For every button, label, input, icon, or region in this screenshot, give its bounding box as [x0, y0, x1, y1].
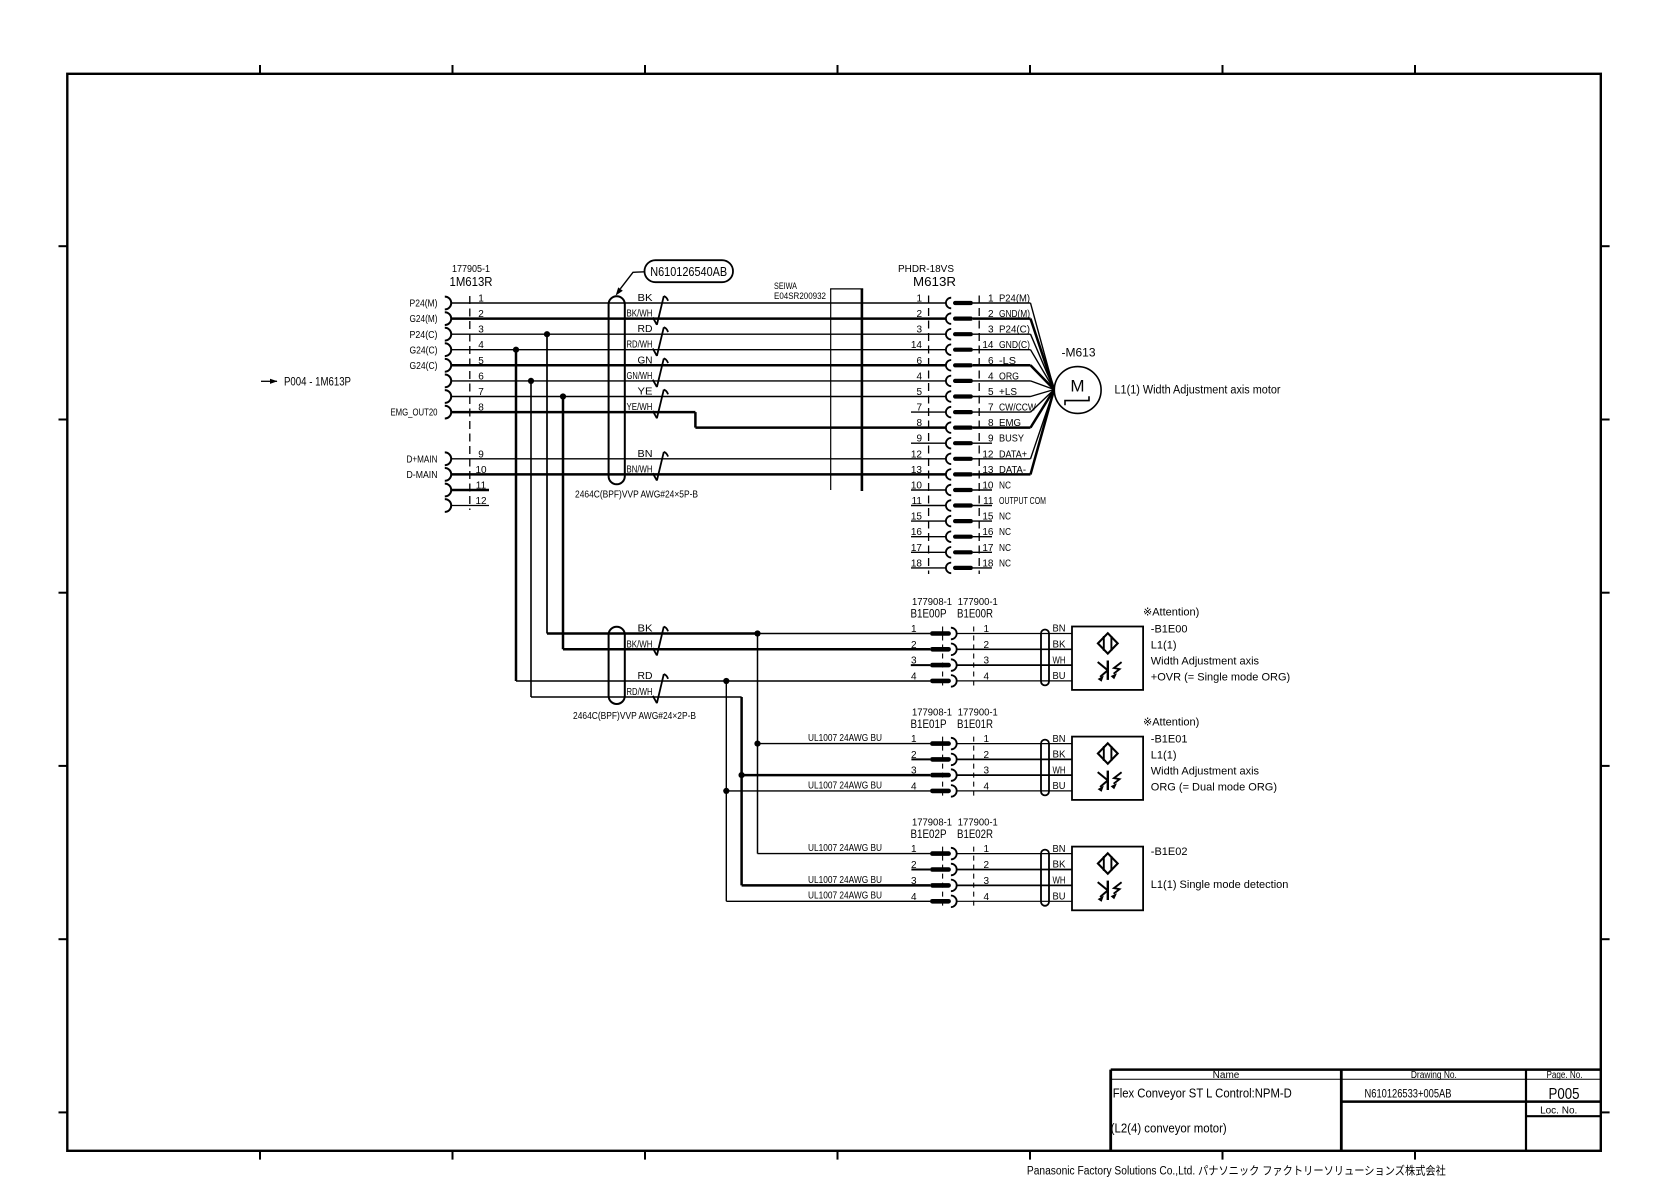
- stub left of M613R row 8: [911, 411, 946, 413]
- svg-text:UL1007 24AWG BU: UL1007 24AWG BU: [808, 843, 882, 854]
- connector B1E00P / B1E00R: [911, 597, 999, 688]
- svg-text:BK: BK: [1053, 640, 1066, 651]
- svg-text:EMG_OUT20: EMG_OUT20: [391, 407, 438, 419]
- svg-text:5: 5: [916, 387, 922, 398]
- wire B1E00R pin 1 to sensor: [957, 633, 1072, 635]
- stub B1E02P pin 2: [911, 869, 930, 871]
- svg-text:WH: WH: [1053, 655, 1066, 666]
- svg-text:BK/WH: BK/WH: [627, 639, 653, 650]
- connector M613R (PHDR-18VS): [898, 264, 1046, 574]
- stub B1E00P pin 3: [911, 664, 930, 666]
- svg-text:G24(C): G24(C): [410, 344, 438, 356]
- twisted pair mark rows 1-2: [664, 296, 668, 301]
- wire M613R row 12 to motor: [973, 390, 1054, 475]
- svg-text:14: 14: [911, 340, 923, 351]
- svg-text:D+MAIN: D+MAIN: [407, 453, 438, 465]
- svg-text:BU: BU: [1053, 671, 1066, 682]
- wire B1E01R pin 3 to sensor: [957, 774, 1072, 776]
- stub 1M613R pin 12: [451, 505, 489, 507]
- node P004 - 1M613P reference: [261, 376, 351, 388]
- svg-text:13: 13: [911, 465, 923, 476]
- wire M613R row 11 to motor: [973, 390, 1054, 459]
- branch wire from pin3 down to BK: [546, 334, 548, 633]
- svg-text:Drawing No.: Drawing No.: [1411, 1070, 1457, 1081]
- wire BK/WH (sensor cable): [563, 648, 930, 651]
- svg-text:N610126533+005AB: N610126533+005AB: [1365, 1086, 1452, 1100]
- svg-text:NC: NC: [999, 512, 1011, 523]
- svg-text:1M613R: 1M613R: [450, 274, 493, 289]
- wire B1E00R pin 2 to sensor: [957, 648, 1072, 650]
- wire M613R row 9 to motor: [973, 390, 1054, 428]
- svg-text:BK: BK: [638, 293, 653, 304]
- wire to B1E01P pin 4: [726, 790, 930, 792]
- branch wire from pin7 down to BK/WH: [562, 397, 565, 650]
- svg-text:Page. No.: Page. No.: [1547, 1070, 1583, 1081]
- twisted pair mark rows 7-8: [664, 390, 668, 395]
- sensor wire colour labels B1E00: [1053, 624, 1066, 682]
- svg-text:BK: BK: [1053, 750, 1066, 761]
- svg-text:YE/WH: YE/WH: [627, 402, 653, 413]
- svg-text:P24(M): P24(M): [410, 298, 438, 310]
- photoelectric sensor B1E00: [1072, 627, 1143, 690]
- svg-text:N610126540AB: N610126540AB: [650, 264, 727, 279]
- svg-text:BN: BN: [638, 449, 653, 460]
- wire to B1E02P pin 3: [742, 884, 930, 887]
- svg-text:BU: BU: [1053, 892, 1066, 903]
- stub left of M613R row 17: [911, 551, 946, 553]
- svg-text:Width Adjustment axis: Width Adjustment axis: [1151, 655, 1260, 667]
- svg-text:1: 1: [911, 624, 917, 635]
- svg-text:GN: GN: [638, 355, 653, 366]
- svg-text:G24(C): G24(C): [410, 360, 438, 372]
- svg-text:L1(1) Width Adjustment axis mo: L1(1) Width Adjustment axis motor: [1115, 385, 1281, 397]
- stub M613R row 17: [973, 551, 992, 553]
- wire M613R row 3 to motor: [973, 334, 1054, 389]
- svg-text:YE: YE: [638, 387, 653, 398]
- wire RD/WH (sensor cable): [531, 696, 742, 698]
- svg-text:OUTPUT COM: OUTPUT COM: [999, 496, 1046, 507]
- connector 1M613R (177905-1): [391, 264, 493, 512]
- junction B1E01 pin1: [754, 741, 760, 747]
- wire M613R row 1 to motor: [973, 303, 1054, 390]
- junction RD branch: [723, 678, 729, 684]
- wire B1E01R pin 1 to sensor: [957, 743, 1072, 745]
- svg-text:2: 2: [911, 640, 917, 651]
- svg-text:L1(1) Single mode detection: L1(1) Single mode detection: [1151, 879, 1289, 891]
- svg-text:2464C(BPF)VVP AWG#24×5P-B: 2464C(BPF)VVP AWG#24×5P-B: [575, 488, 698, 500]
- svg-text:BN: BN: [1053, 734, 1066, 745]
- wire to B1E01P pin 1: [758, 743, 931, 745]
- title block: [1111, 1070, 1601, 1151]
- sensor wire colour labels B1E02: [1053, 844, 1066, 903]
- branch vertical RD/WH: [740, 697, 743, 885]
- svg-text:BK: BK: [1053, 860, 1066, 871]
- annotation B1E02: [1151, 846, 1289, 891]
- cable shield 2464C 2P (oval): [609, 627, 625, 704]
- stub M613R BUSY: [973, 442, 992, 444]
- stub left of M613R row 18: [911, 567, 946, 569]
- svg-text:ORG (= Dual mode ORG): ORG (= Dual mode ORG): [1151, 781, 1277, 793]
- svg-text:L1(1): L1(1): [1151, 639, 1177, 651]
- wire B1E02R pin 2 to sensor: [957, 869, 1072, 871]
- wire to B1E02P pin 1: [758, 853, 931, 855]
- wire B1E00R pin 4 to sensor: [957, 680, 1072, 682]
- cable shield B1E01 (oval): [1041, 740, 1049, 796]
- svg-text:4: 4: [911, 671, 917, 682]
- wire BK (sensor cable): [547, 632, 930, 635]
- svg-text:-M613: -M613: [1062, 346, 1096, 360]
- svg-text:P24(C): P24(C): [410, 329, 438, 341]
- svg-text:P005: P005: [1549, 1086, 1580, 1103]
- junction on pin6 wire: [528, 378, 534, 384]
- svg-text:+OVR (= Single mode ORG): +OVR (= Single mode ORG): [1151, 671, 1290, 683]
- wire B1E00R pin 3 to sensor: [957, 664, 1072, 666]
- twisted pair mark rows 3-4: [664, 327, 668, 332]
- wire B1E02R pin 3 to sensor: [957, 884, 1072, 886]
- wire B1E02R pin 1 to sensor: [957, 853, 1072, 855]
- wire M613R row 2 to motor: [973, 319, 1054, 390]
- svg-text:-B1E02: -B1E02: [1151, 846, 1188, 858]
- wire M613R row 4 to motor: [973, 350, 1054, 390]
- wire 1M613R pin 3 to M613R: [451, 333, 946, 335]
- svg-text:NC: NC: [999, 481, 1011, 492]
- svg-text:NC: NC: [999, 558, 1011, 569]
- stub M613R row 16: [973, 536, 992, 538]
- svg-text:4: 4: [916, 371, 922, 382]
- stub left of M613R row 15: [911, 520, 946, 522]
- stub left of M613R row 10: [911, 442, 946, 444]
- junction on pin3 wire: [544, 331, 550, 337]
- wire M613R row 7 to motor: [973, 390, 1054, 397]
- svg-text:2: 2: [916, 309, 922, 320]
- photoelectric sensor B1E02: [1072, 847, 1143, 911]
- connector B1E02P / B1E02R: [911, 818, 999, 909]
- annotation B1E00: [1143, 607, 1290, 684]
- annotation B1E01: [1143, 717, 1277, 794]
- branch wire from pin4 down to RD: [515, 350, 518, 681]
- svg-text:UL1007 24AWG BU: UL1007 24AWG BU: [808, 780, 882, 791]
- motor M613: [1054, 367, 1101, 414]
- svg-text:6: 6: [916, 356, 922, 367]
- svg-text:RD/WH: RD/WH: [627, 687, 653, 698]
- svg-text:GN/WH: GN/WH: [627, 371, 653, 382]
- svg-text:BN/WH: BN/WH: [627, 464, 653, 475]
- svg-text:3: 3: [916, 325, 922, 336]
- twisted pair mark rows 5-6: [664, 358, 668, 363]
- cable shield 2464C 5P (oval): [609, 296, 625, 484]
- stub M613R row 13: [973, 489, 992, 491]
- svg-text:M613R: M613R: [913, 274, 956, 289]
- junction BK branch: [754, 630, 760, 636]
- svg-text:NC: NC: [999, 527, 1011, 538]
- stub M613R row 18: [973, 567, 992, 569]
- svg-text:WH: WH: [1053, 876, 1066, 887]
- svg-text:UL1007 24AWG BU: UL1007 24AWG BU: [808, 733, 882, 744]
- wire D-MAIN 1M613R pin 10 to M613R pin 13: [451, 473, 946, 476]
- svg-text:2464C(BPF)VVP AWG#24×2P-B: 2464C(BPF)VVP AWG#24×2P-B: [573, 710, 696, 722]
- sensor wire colour labels B1E01: [1053, 734, 1066, 792]
- twisted pair mark rows 11-12: [664, 452, 668, 457]
- svg-text:M: M: [1070, 377, 1084, 396]
- stub left of M613R row 13: [911, 489, 946, 491]
- svg-text:L1(1): L1(1): [1151, 749, 1177, 761]
- wire 1M613R pin 4 to M613R: [451, 349, 946, 351]
- svg-text:B1E02P: B1E02P: [911, 827, 947, 841]
- svg-text:8: 8: [916, 418, 922, 429]
- wire B1E01R pin 4 to sensor: [957, 790, 1072, 792]
- svg-text:※Attention): ※Attention): [1143, 717, 1199, 729]
- svg-text:Panasonic Factory Solutions Co: Panasonic Factory Solutions Co.,Ltd. パナソ…: [1027, 1164, 1446, 1178]
- svg-text:B1E01P: B1E01P: [911, 717, 947, 731]
- wire B1E02R pin 4 to sensor: [957, 900, 1072, 902]
- junction on pin4 wire: [513, 347, 519, 353]
- svg-text:-B1E01: -B1E01: [1151, 733, 1188, 745]
- svg-text:D-MAIN: D-MAIN: [407, 469, 438, 481]
- svg-text:NC: NC: [999, 543, 1011, 554]
- balloon N610126540AB: [616, 260, 733, 295]
- svg-text:WH: WH: [1053, 765, 1066, 776]
- stub 1M613R pin 11: [451, 489, 489, 492]
- svg-text:G24(M): G24(M): [410, 313, 438, 325]
- svg-text:RD: RD: [638, 671, 653, 682]
- svg-text:P004 - 1M613P: P004 - 1M613P: [284, 376, 351, 388]
- svg-text:BN: BN: [1053, 844, 1066, 855]
- wire B1E01R pin 2 to sensor: [957, 758, 1072, 760]
- svg-text:RD: RD: [638, 324, 653, 335]
- stub B1E01P pin 2: [911, 758, 930, 760]
- wire 1M613R pin 1 to M613R: [451, 302, 946, 304]
- svg-text:UL1007 24AWG BU: UL1007 24AWG BU: [808, 891, 882, 902]
- svg-text:Name: Name: [1213, 1070, 1240, 1081]
- svg-text:B1E02R: B1E02R: [957, 827, 993, 841]
- junction B1E01 pin4: [723, 788, 729, 794]
- stub left of M613R row 14: [911, 505, 946, 507]
- branch vertical RD: [725, 681, 727, 901]
- branch wire from pin6 down to RD/WH: [530, 381, 532, 697]
- wire to B1E01P pin 3: [742, 774, 930, 777]
- svg-text:-B1E00: -B1E00: [1151, 623, 1188, 635]
- svg-text:Width Adjustment axis: Width Adjustment axis: [1151, 765, 1260, 777]
- svg-text:UL1007 24AWG BU: UL1007 24AWG BU: [808, 875, 882, 886]
- svg-text:B1E00R: B1E00R: [957, 606, 993, 620]
- svg-text:BK/WH: BK/WH: [627, 309, 653, 320]
- wire M613R row 8 to motor: [973, 390, 1054, 413]
- wire M613R row 6 to motor: [973, 381, 1054, 390]
- svg-text:1: 1: [916, 294, 922, 305]
- svg-text:Flex Conveyor ST L Control:NPM: Flex Conveyor ST L Control:NPM-D: [1113, 1086, 1292, 1100]
- wire 1M613R pin 6 to M613R: [451, 380, 946, 382]
- svg-text:B1E00P: B1E00P: [911, 606, 947, 620]
- wire 1M613R pin 7 to M613R: [451, 396, 946, 398]
- twisted pair mark RD pair: [664, 674, 668, 679]
- svg-text:B1E01R: B1E01R: [957, 717, 993, 731]
- junction on pin7 wire: [560, 393, 566, 399]
- wire M613R row 5 to motor: [973, 365, 1054, 389]
- wire D+MAIN 1M613R pin 9 to M613R pin 12: [451, 458, 946, 460]
- ferrite core SEIWA E04SR200932: [774, 281, 863, 491]
- svg-text:BUSY: BUSY: [999, 434, 1024, 445]
- svg-text:BU: BU: [1053, 781, 1066, 792]
- wire to B1E02P pin 4: [726, 900, 930, 902]
- wire RD (sensor cable): [516, 680, 930, 682]
- wire 1M613R pin 5 to M613R: [451, 364, 946, 367]
- svg-text:E04SR200932: E04SR200932: [774, 291, 826, 302]
- cable shield B1E02 (oval): [1041, 850, 1049, 906]
- svg-text:RD/WH: RD/WH: [627, 340, 653, 351]
- wire 1M613R pin 2 to M613R: [451, 317, 946, 320]
- wire colour labels 2464C 5P: [627, 293, 653, 475]
- svg-text:12: 12: [911, 449, 923, 460]
- svg-text:(L2(4) conveyor motor): (L2(4) conveyor motor): [1111, 1121, 1227, 1135]
- svg-text:BN: BN: [1053, 624, 1066, 635]
- connector B1E01P / B1E01R: [911, 708, 999, 798]
- branch vertical BK: [757, 634, 759, 854]
- svg-text:Loc. No.: Loc. No.: [1540, 1106, 1577, 1117]
- wire EMG_OUT20 1M613R pin 8 to M613R pin 8 (jog): [451, 412, 946, 428]
- photoelectric sensor B1E01: [1072, 737, 1143, 800]
- svg-text:BK: BK: [638, 624, 653, 635]
- twisted pair mark BK pair: [664, 627, 668, 632]
- stub M613R row 15: [973, 520, 992, 522]
- wire colour labels 2464C 2P: [627, 624, 653, 699]
- svg-text:※Attention): ※Attention): [1143, 607, 1199, 619]
- cable shield B1E00 (oval): [1041, 630, 1049, 686]
- stub left of M613R row 16: [911, 536, 946, 538]
- stub M613R row 14: [973, 505, 992, 507]
- junction B1E01 pin3: [739, 772, 745, 778]
